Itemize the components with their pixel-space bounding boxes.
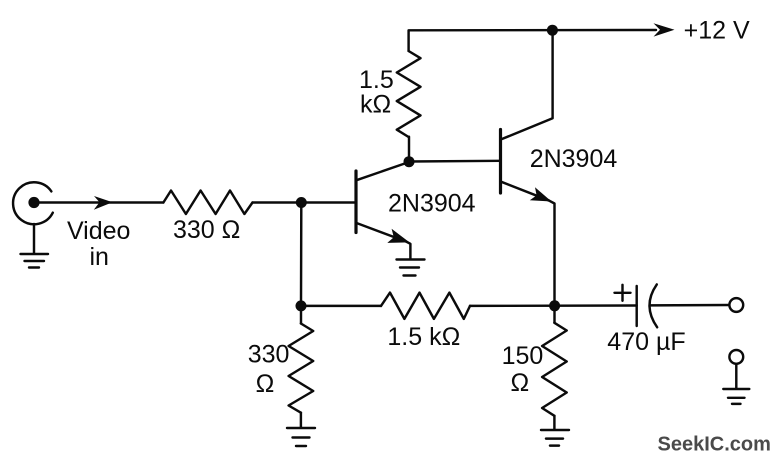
svg-text:Ω: Ω (256, 370, 275, 398)
label: 330 ohm (R3) (248, 341, 290, 399)
resistor R3 330 ohm (shunt to ground) (289, 306, 314, 427)
capacitor C1 polarity plus sign (615, 285, 631, 301)
resistor R4 1.5 kohm (feedback) (381, 293, 470, 319)
output ground terminal J3 (open circle) (729, 350, 743, 364)
svg-text:Video: Video (67, 217, 131, 245)
label: 150 ohm (R5) (502, 342, 544, 397)
wire: R2 top to +12V rail corner (409, 30, 656, 51)
svg-text:+12 V: +12 V (684, 16, 750, 44)
svg-text:330 Ω: 330 Ω (173, 216, 240, 244)
label: 1.5 kohm (R2) (359, 66, 394, 119)
resistor R2 1.5 kohm (collector load) (397, 51, 421, 137)
svg-text:2N3904: 2N3904 (530, 145, 618, 173)
resistor R5 150 ohm (emitter load) (542, 306, 567, 430)
wire: node C to Q2 base (409, 160, 501, 163)
ground (R5) (541, 430, 569, 446)
ground (R3) (287, 428, 315, 446)
+12V supply arrow (654, 23, 675, 36)
ground (Q1 emitter) (397, 260, 425, 276)
svg-text:Ω: Ω (511, 369, 530, 397)
wire: Q1 emitter to ground (406, 242, 410, 260)
ground (output) (723, 389, 749, 404)
node C (junction dot, Q1 collector / Q2 base node) (404, 156, 415, 167)
transistor Q1 2N3904 (356, 162, 410, 243)
wire: Q2 emitter down to node E (549, 200, 555, 306)
svg-text:2N3904: 2N3904 (388, 189, 476, 217)
svg-text:in: in (89, 243, 108, 271)
wire: node A down to node B (300, 203, 303, 307)
svg-text:470 µF: 470 µF (607, 328, 685, 356)
label: Video in (67, 217, 131, 271)
wire: node C up into R2 (408, 137, 410, 162)
capacitor C1 470 uF (output coupling), straight plate (635, 286, 637, 326)
wire: BNC shell to ground (33, 224, 35, 254)
resistor R1 330 ohm (series input) (163, 191, 252, 215)
svg-text:330: 330 (248, 341, 290, 369)
wire: C1 to output jack (650, 304, 729, 307)
svg-text:1.5 kΩ: 1.5 kΩ (387, 323, 460, 351)
node D (junction dot on +12V rail) (547, 25, 558, 36)
svg-text:150: 150 (502, 342, 544, 370)
wire: R4 to node E and on to capacitor C1 (470, 304, 637, 307)
svg-text:kΩ: kΩ (360, 91, 391, 119)
BNC connector J1 (video input jack) (13, 182, 53, 224)
output terminal J2 (open circle) (729, 298, 743, 312)
wire: BNC center to R1 with signal arrow (36, 196, 163, 210)
node E (junction dot, output node) (549, 300, 560, 311)
ground (input BNC) (21, 254, 49, 268)
node B (junction dot, bottom of node A branch) (296, 300, 307, 311)
wire: J3 to ground (735, 364, 737, 388)
node A (junction dot, input node) (296, 197, 307, 208)
wire: Q2 collector to +12V rail (501, 30, 553, 139)
wire: R1 to Q1 base through node A (253, 201, 355, 203)
svg-text:SeekIC.com: SeekIC.com (658, 434, 771, 456)
capacitor C1 curved plate (649, 284, 657, 327)
wire: node B to R4 (301, 305, 381, 307)
transistor Q2 2N3904 (501, 130, 552, 202)
